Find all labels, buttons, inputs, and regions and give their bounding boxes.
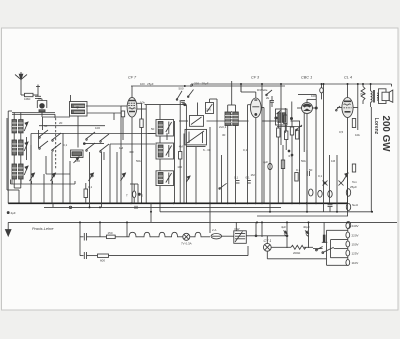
rectifier CY1 — [263, 236, 326, 259]
IF transformer can 1 — [156, 120, 174, 137]
svg-text:125V: 125V — [352, 252, 359, 256]
svg-text:100: 100 — [95, 126, 100, 130]
AVC line — [11, 180, 139, 204]
left coil bank pair 3 — [12, 164, 28, 179]
svg-text:0,1: 0,1 — [243, 148, 248, 152]
svg-text:50: 50 — [44, 124, 48, 128]
svg-text:4M: 4M — [179, 145, 184, 149]
svg-text:50: 50 — [309, 168, 313, 172]
IF transformer can 3 — [156, 171, 174, 186]
bus line 1 (thick) — [8, 202, 348, 204]
svg-text:CF 3: CF 3 — [251, 76, 260, 80]
bus line 4 — [257, 215, 348, 217]
tube CBC1 — [297, 84, 323, 203]
bus line 2 — [44, 206, 281, 208]
grid resistor left of CF7 — [121, 111, 124, 140]
svg-text:Ton: Ton — [352, 180, 357, 184]
svg-text:20: 20 — [59, 121, 63, 125]
svg-text:30: 30 — [222, 133, 226, 137]
svg-text:500: 500 — [179, 87, 184, 91]
wave switch contacts set 1 — [39, 130, 61, 151]
fuse oval — [211, 234, 234, 239]
lower dial row 2 resistor — [98, 246, 249, 257]
top rail — [131, 84, 392, 87]
right resistor boxes — [281, 119, 355, 182]
svg-text:200 GW: 200 GW — [380, 116, 391, 153]
svg-text:0,5: 0,5 — [289, 154, 294, 158]
chassis arrow bottom left — [5, 212, 11, 236]
cap on bus2 — [135, 206, 137, 209]
bus line 3 — [160, 211, 373, 213]
speaker — [379, 89, 393, 104]
svg-text:CL 4: CL 4 — [344, 76, 352, 80]
svg-text:50: 50 — [151, 127, 155, 131]
lower dial row 2 cap — [80, 252, 98, 259]
svg-text:0,1: 0,1 — [88, 185, 93, 189]
IF transformer can 2 — [156, 143, 174, 159]
trimmer caps above IF can — [176, 90, 193, 106]
svg-text:0,1: 0,1 — [234, 176, 239, 180]
dial lamp — [183, 233, 194, 240]
svg-text:1M: 1M — [119, 146, 124, 150]
CBC column resistors — [284, 108, 302, 150]
electrolytic arrows bottom — [284, 231, 309, 234]
svg-text:2k: 2k — [266, 96, 270, 100]
svg-text:1M: 1M — [331, 159, 336, 163]
left coil bank wires — [7, 111, 55, 203]
small value labels — [11, 82, 367, 266]
svg-text:10k: 10k — [140, 101, 145, 105]
svg-text:7kΩ: 7kΩ — [360, 92, 366, 96]
svg-text:D/Welle: D/Welle — [257, 88, 268, 92]
tube CF3 — [241, 84, 264, 203]
volume resistor — [84, 183, 88, 203]
svg-text:0,1: 0,1 — [63, 143, 68, 147]
svg-text:T: T — [126, 194, 128, 198]
mid vertical wires center — [127, 84, 281, 237]
svg-text:2 A: 2 A — [212, 228, 216, 232]
dial row vertical feeds — [80, 203, 309, 255]
CF3 area components — [219, 121, 299, 203]
svg-text:220 · 25µF: 220 · 25µF — [194, 82, 209, 86]
svg-text:4µF: 4µF — [11, 211, 16, 215]
antenna series resistor — [21, 93, 38, 96]
svg-text:0,1: 0,1 — [296, 168, 301, 172]
mains switch block DW — [234, 222, 288, 243]
antenna socket — [37, 99, 47, 117]
svg-text:240: 240 — [206, 108, 211, 112]
tube CF7 — [121, 86, 146, 203]
trimmer caps near CBC — [266, 90, 274, 107]
oscillator coil pair — [225, 81, 238, 203]
coil hatch overlay — [12, 106, 238, 180]
svg-text:25µF: 25µF — [350, 185, 357, 189]
NTC resistor — [278, 245, 313, 249]
switch shaft dashed — [56, 118, 104, 170]
CF7 screen resistors — [140, 103, 146, 203]
svg-text:1M: 1M — [251, 173, 256, 177]
svg-text:100: 100 — [75, 159, 80, 163]
right small capacitors — [288, 150, 343, 197]
svg-text:CBC 1: CBC 1 — [301, 76, 312, 80]
oscillator padder box — [206, 99, 218, 127]
svg-text:Praxis-Lehre: Praxis-Lehre — [32, 227, 54, 231]
svg-text:S: S — [141, 194, 143, 198]
right oval capacitors — [309, 189, 351, 229]
output stage resistor — [361, 84, 365, 104]
svg-text:40µF: 40µF — [303, 225, 310, 229]
svg-text:4µF: 4µF — [281, 225, 286, 229]
svg-text:150V: 150V — [352, 243, 359, 247]
svg-text:CF 7: CF 7 — [128, 76, 137, 80]
svg-text:1MΩ: 1MΩ — [24, 97, 31, 101]
svg-text:220V: 220V — [352, 234, 359, 238]
svg-text:150: 150 — [108, 231, 113, 235]
electrolytic cap ticks bottom — [285, 232, 309, 248]
tube CL4 — [336, 84, 358, 203]
svg-text:0,5: 0,5 — [339, 130, 344, 134]
svg-text:2x0,1: 2x0,1 — [219, 125, 227, 129]
svg-text:6...30: 6...30 — [203, 148, 211, 152]
svg-text:Netz: Netz — [352, 203, 359, 207]
trimmer box lower — [185, 129, 207, 146]
mid vertical wires left — [31, 106, 121, 207]
svg-text:100 · 25µF: 100 · 25µF — [140, 82, 154, 86]
wave switch contacts set 2 — [86, 132, 109, 152]
svg-text:4µF: 4µF — [263, 160, 268, 164]
svg-text:4,5: 4,5 — [90, 174, 95, 178]
svg-text:10k: 10k — [355, 133, 360, 137]
IF can connecting wires — [145, 100, 190, 212]
mid coil box 2 — [71, 150, 84, 163]
svg-text:0,1: 0,1 — [246, 176, 251, 180]
heater chain loops — [127, 232, 183, 237]
svg-text:7V 0,3A: 7V 0,3A — [181, 242, 192, 246]
antenna coil output wires — [71, 95, 122, 120]
antenna coupling cap — [35, 85, 42, 99]
output transformer — [371, 84, 379, 107]
detector coil pair — [275, 102, 302, 127]
svg-text:CY 1: CY 1 — [264, 239, 272, 243]
svg-text:100: 100 — [311, 94, 316, 98]
scale lamp — [130, 152, 141, 203]
dial row resistor 1 — [92, 235, 127, 239]
left mid horizontals — [39, 126, 118, 204]
svg-text:600: 600 — [100, 259, 105, 263]
mid horizontal wires — [31, 106, 300, 203]
trimmer box upper — [190, 103, 204, 127]
right section verticals — [283, 84, 348, 216]
dial row cap 1 — [80, 233, 92, 241]
mains voltage switch — [313, 222, 348, 265]
bus line 5 — [8, 221, 397, 223]
cap between buses — [328, 205, 333, 212]
voltage selector terminals — [346, 222, 350, 265]
AVC arrows — [30, 173, 349, 181]
svg-text:200Ω: 200Ω — [293, 251, 301, 255]
svg-text:50k: 50k — [301, 159, 306, 163]
antenna — [15, 72, 27, 94]
svg-text:0,1: 0,1 — [318, 174, 323, 178]
svg-text:50k: 50k — [136, 159, 141, 163]
svg-text:Lorenz: Lorenz — [373, 118, 379, 135]
svg-text:110V: 110V — [352, 261, 359, 265]
svg-text:240V: 240V — [352, 224, 359, 228]
left coil bank pair 2 — [12, 140, 28, 155]
component on line 208 — [53, 203, 72, 208]
svg-text:100: 100 — [177, 165, 182, 169]
last heater loop — [194, 232, 211, 237]
svg-text:DW: DW — [235, 227, 240, 231]
left coil bank pair 1 — [12, 120, 28, 133]
right side vertical drop — [371, 84, 391, 212]
mid coil box 1 — [70, 102, 88, 117]
